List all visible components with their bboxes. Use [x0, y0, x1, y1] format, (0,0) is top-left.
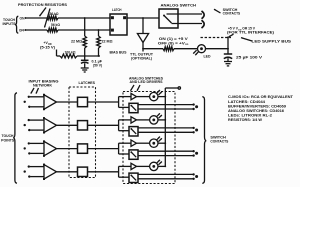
svg-text:(50 V): (50 V) — [93, 64, 102, 68]
svg-text:PROTECTION RESISTORS: PROTECTION RESISTORS — [18, 3, 68, 7]
svg-text:(OPTIONAL): (OPTIONAL) — [131, 56, 152, 60]
svg-text:NETWORK: NETWORK — [33, 83, 53, 87]
svg-text:POINTS: POINTS — [1, 138, 15, 142]
svg-text:22 MΩ: 22 MΩ — [102, 40, 113, 44]
svg-text:ANALOG SWITCH: ANALOG SWITCH — [161, 4, 197, 8]
svg-text:LATCHES: CD4044: LATCHES: CD4044 — [228, 100, 265, 104]
svg-text:ANALOG SWITCHES: CD4016: ANALOG SWITCHES: CD4016 — [228, 109, 284, 113]
svg-text:INPUTS: INPUTS — [3, 22, 17, 26]
svg-text:LEDs: LITRONIX RL-2: LEDs: LITRONIX RL-2 — [228, 113, 272, 117]
svg-text:OFF: OFF — [19, 28, 25, 32]
svg-text:CONTACTS: CONTACTS — [223, 12, 241, 16]
svg-text:DD: DD — [185, 44, 189, 46]
svg-text:BUFFER/INVERTERS: CD4069: BUFFER/INVERTERS: CD4069 — [228, 104, 286, 108]
svg-text:22 MΩ: 22 MΩ — [71, 40, 82, 44]
svg-text:LED: LED — [204, 55, 212, 59]
svg-text:ON (1) = +5 V: ON (1) = +5 V — [159, 37, 189, 41]
svg-text:RESISTORS: 1/4 W: RESISTORS: 1/4 W — [228, 118, 263, 122]
svg-text:ON: ON — [20, 17, 26, 21]
svg-text:LATCH: LATCH — [112, 8, 122, 12]
svg-text:CONTACTS: CONTACTS — [210, 139, 229, 143]
svg-text:BIAS BUS: BIAS BUS — [110, 50, 128, 54]
svg-text:C-MOS ICs: RCA OR EQUIVALENT: C-MOS ICs: RCA OR EQUIVALENT — [228, 95, 293, 99]
svg-text:(FOR TTL INTERFACE): (FOR TTL INTERFACE) — [227, 31, 274, 35]
svg-text:LATCHES: LATCHES — [79, 81, 96, 85]
svg-text:TOUCH: TOUCH — [2, 134, 15, 138]
svg-text:25 µF 100 V: 25 µF 100 V — [236, 55, 263, 59]
svg-text:LED SUPPLY BUS: LED SUPPLY BUS — [252, 40, 293, 44]
svg-text:(5-15 V): (5-15 V) — [40, 46, 55, 50]
svg-text:AND LED DRIVERS: AND LED DRIVERS — [130, 80, 164, 84]
